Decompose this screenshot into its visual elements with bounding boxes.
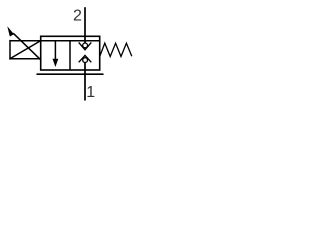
flow arrow stem (left position) <box>54 41 56 60</box>
bottom rail line <box>37 73 104 75</box>
inner top line + solenoid top edge <box>10 40 100 42</box>
bottom check seat <box>79 55 92 62</box>
valve body V1 outer outline <box>41 36 100 70</box>
bottom check ball <box>83 58 88 63</box>
top check ball <box>83 43 88 48</box>
port 2 line <box>84 7 86 43</box>
solenoid box left edge <box>9 40 11 60</box>
proportional arrowhead <box>7 26 14 36</box>
port 1 line <box>84 62 86 100</box>
svg-text:2: 2 <box>73 8 82 25</box>
flow arrowhead <box>53 59 59 67</box>
solenoid diagonal <box>10 41 40 59</box>
top check seat V <box>79 42 92 49</box>
spring <box>100 43 132 56</box>
proportional arrow shaft <box>13 33 41 60</box>
position divider <box>69 41 71 70</box>
solenoid box bottom edge <box>9 58 40 60</box>
svg-text:1: 1 <box>86 84 95 101</box>
